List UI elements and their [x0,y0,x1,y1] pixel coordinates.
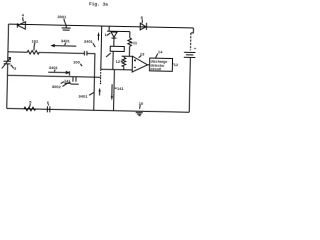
wire vertical node 101 [100,26,103,69]
wire bottom rail [7,108,189,112]
arrow 3401 third row [48,71,69,76]
resistor 5 [24,107,36,111]
diode 8 [140,23,146,30]
leader of label 3002 [62,82,70,87]
arrow up near top [97,32,99,41]
svg-text:3401: 3401 [84,39,94,44]
svg-text:3401: 3401 [78,94,88,99]
svg-text:5: 5 [29,100,32,105]
wire comparator output [148,64,150,66]
leader of label 3001 [64,19,66,25]
svg-text:102: 102 [32,39,40,44]
leader of label 12 [121,60,123,62]
svg-text:3: 3 [14,66,17,71]
svg-text:6: 6 [47,100,50,105]
diode 1 [111,32,117,38]
wire comparator top feed [122,55,133,57]
underline and bracket of label 141 [64,82,78,85]
leader of label 12 right of box [172,63,175,65]
svg-text:3401: 3401 [49,65,59,70]
leader of label 14 [156,53,158,57]
leader of label 11 [131,42,133,44]
resistor 11 [128,32,132,57]
wire left rail lower [6,64,9,109]
arrow up lower [98,88,100,96]
svg-text:100: 100 [73,59,81,64]
arrow 3401 second row [52,44,77,47]
battery 14 plate short mid [186,54,193,56]
wire top rail [9,24,194,28]
wire stub from top rail into divider chain [108,26,110,31]
wire second row [45,52,84,55]
op-amp comparator 13 [132,56,148,72]
battery 14 plate long top [184,51,195,53]
battery 14 plate long bottom [184,56,195,58]
svg-text:Fig. 3a: Fig. 3a [89,1,108,7]
discharge detector circuit box [149,58,172,71]
svg-text:circuit: circuit [150,67,162,71]
resistor 12 [122,56,126,70]
wire comparator lower feed [101,68,133,71]
svg-text:10: 10 [139,101,144,106]
leader below box [106,53,111,57]
svg-text:12: 12 [174,62,179,67]
arrow down discharge [111,84,114,100]
svg-text:13: 13 [140,51,145,56]
wire third row right [76,76,101,79]
svg-text:+: + [194,46,197,51]
svg-text:141: 141 [117,86,125,91]
leader of label 6 [47,104,49,105]
wire node rail [107,30,130,32]
leader of label 1 [107,33,111,36]
wire from diode 1 to box [113,38,115,46]
svg-text:12: 12 [116,59,121,64]
wire box stub down [112,51,114,69]
wire vertical node 101 dashed tail [100,69,102,83]
leader of label 3401 a [65,43,66,45]
leader of label 3401 c [53,69,56,71]
leader of label 4 [22,17,25,21]
wire second row right with corner down [86,53,95,110]
svg-text:3401: 3401 [61,38,71,43]
svg-text:3001: 3001 [57,14,67,19]
leader of label 100 [80,64,82,66]
leader of label 3 [11,65,14,69]
wire right rail dashed segment [190,33,192,50]
svg-text:8: 8 [141,15,144,20]
leader of label 5 [29,104,32,107]
svg-text:11: 11 [133,40,138,45]
wire third row [7,75,76,76]
wire left rail upper [7,24,10,61]
capacitor 6 [47,106,50,112]
variable capacitor 3 [2,57,11,68]
leader of label 8 [141,19,143,23]
leader of label 13 [139,56,141,58]
resistor 102 [8,50,45,54]
capacitor 3001 [62,25,71,30]
svg-text:141: 141 [64,78,72,83]
node blob at 101 [100,83,101,84]
leader of label 10 [139,105,142,109]
leader of label 141 [61,82,64,84]
svg-text:14: 14 [158,49,163,54]
wire right rail top jog [191,28,194,33]
leader of label 3401 d [89,92,94,95]
wire right rail lower [189,57,190,112]
svg-text:4: 4 [22,12,25,17]
capacitor series second row [84,51,87,56]
capacitor 3002 series [73,76,76,81]
leader of label 102 [33,43,36,51]
svg-text:3002: 3002 [52,84,62,89]
wire vertical to bottom rail [113,70,116,111]
leader of label 3401 b [93,43,95,47]
leader of label 141 right [115,87,117,89]
diode 4 [17,22,25,30]
divider box U1 [110,46,124,51]
ground 10 [136,113,143,116]
